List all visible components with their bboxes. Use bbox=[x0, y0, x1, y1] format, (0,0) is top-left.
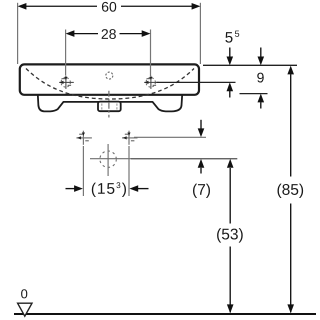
dimension 60 extension lines bbox=[18, 3, 201, 64]
dimension 28 extension lines bbox=[66, 30, 151, 77]
underside profile with feet bbox=[38, 95, 182, 112]
washbasin body outline bbox=[20, 64, 199, 94]
ground line bbox=[14, 313, 316, 315]
dimension 15.3 extension lines bbox=[83, 146, 129, 196]
detail left tap hole cross bbox=[76, 131, 92, 145]
dimension 53 bbox=[217, 159, 243, 313]
dimension 85 bbox=[277, 66, 303, 314]
datum zero symbol bbox=[18, 289, 32, 316]
detail right tap hole cross bbox=[122, 131, 138, 145]
detail drain circle (dashed) bbox=[100, 144, 116, 176]
tap hole level extension (7 dim, upper) bbox=[134, 136, 206, 138]
dimension 60 bbox=[18, 2, 201, 12]
center tap hole (dashed circle) bbox=[106, 72, 113, 79]
hidden bowl edge (dashed arc) bbox=[26, 69, 194, 100]
dimension 15.3 bbox=[66, 182, 149, 197]
centerline through drain bbox=[108, 91, 110, 118]
dimension 7 bbox=[193, 120, 210, 198]
drain box bbox=[98, 102, 121, 112]
drain level extension line (long) bbox=[90, 158, 237, 160]
left tap hole symbol bbox=[59, 76, 74, 89]
tap hole level line (right) bbox=[157, 81, 236, 83]
bottom edge level line (right) bbox=[240, 93, 268, 95]
right tap hole symbol bbox=[144, 76, 159, 89]
dimension 28 bbox=[66, 29, 151, 39]
dimension 5.5 bbox=[225, 31, 239, 98]
dimension 9 bbox=[257, 48, 264, 109]
top edge level line (right) bbox=[203, 64, 297, 66]
